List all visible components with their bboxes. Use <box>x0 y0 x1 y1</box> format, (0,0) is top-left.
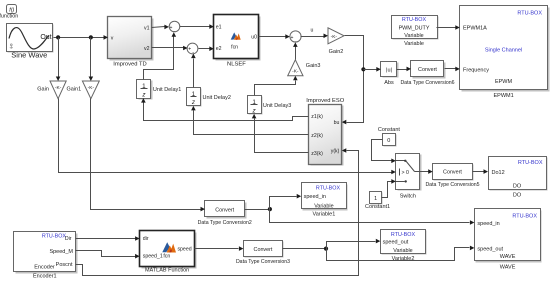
sum Sum1 <box>169 21 180 35</box>
wire Gain2 down to bu <box>342 36 364 125</box>
wire MATLAB Function speed to Data Type Conversion3 <box>195 246 244 251</box>
svg-text:dir: dir <box>143 236 149 242</box>
svg-text:Gain3: Gain3 <box>306 63 321 69</box>
block Unit Delay1 <box>137 80 182 100</box>
svg-text:Data Type Conversion2: Data Type Conversion2 <box>198 220 252 226</box>
function badge f() <box>0 5 18 20</box>
block Data Type Conversion3 <box>236 241 290 266</box>
block Variable2 <box>381 230 427 262</box>
wire Data Type Conversion3 to junction <box>283 248 327 250</box>
block Encoder1 <box>14 232 78 280</box>
svg-text:v2: v2 <box>144 46 150 52</box>
wire Gain3 to Sum3 minus <box>293 42 298 59</box>
svg-text:speed_in: speed_in <box>477 221 499 227</box>
svg-text:Data Type Conversion3: Data Type Conversion3 <box>236 259 290 265</box>
svg-text:Variable: Variable <box>404 33 423 39</box>
sum Sum2 <box>187 43 198 56</box>
wire Data Type Conversion2 to junction <box>245 209 270 211</box>
svg-text:y(k): y(k) <box>331 149 340 155</box>
svg-text:Do12: Do12 <box>492 170 505 176</box>
svg-text:z1(k): z1(k) <box>311 114 323 120</box>
svg-text:RTU-BOX: RTU-BOX <box>391 232 416 238</box>
svg-text:DO: DO <box>513 193 522 199</box>
svg-text:e1: e1 <box>216 24 222 30</box>
svg-text:Convert: Convert <box>215 207 234 213</box>
wire Abs to Data Type Conversion6 <box>397 67 412 72</box>
svg-text:Poscnt: Poscnt <box>56 262 73 268</box>
svg-text:fcn: fcn <box>231 45 238 51</box>
svg-text:Variable: Variable <box>393 248 412 254</box>
svg-text:v: v <box>111 36 114 42</box>
wire junction to Variable2 speed_out <box>327 239 381 249</box>
svg-text:Unit Delay1: Unit Delay1 <box>153 87 181 93</box>
block Data Type Conversion2 <box>198 201 252 227</box>
svg-text:z3(k): z3(k) <box>311 151 323 157</box>
junction speed_in <box>268 207 272 211</box>
gain Gain <box>37 81 66 99</box>
svg-text:Speed_M: Speed_M <box>49 249 73 255</box>
block WAVE <box>475 209 542 271</box>
gain Gain1 <box>67 81 100 99</box>
svg-text:Variable: Variable <box>404 41 424 47</box>
svg-text:Gain2: Gain2 <box>329 49 344 55</box>
svg-text:1: 1 <box>374 196 377 202</box>
wire junction to WAVE speed_in <box>270 210 475 225</box>
sum Sum3 <box>290 31 301 45</box>
block Unit Delay3 <box>248 96 292 115</box>
wire Sum1 to NLSEF e1 <box>180 24 214 29</box>
svg-text:EPWM: EPWM <box>495 79 513 85</box>
svg-text:-K-: -K- <box>88 85 95 91</box>
wire junction to Abs <box>364 67 381 72</box>
svg-text:Convert: Convert <box>443 170 462 176</box>
svg-text:RTU-BOX: RTU-BOX <box>402 17 427 23</box>
junction Gain2 branch to Abs <box>361 67 365 71</box>
svg-text:RTU-BOX: RTU-BOX <box>518 160 543 166</box>
svg-text:Sine Wave: Sine Wave <box>11 51 47 60</box>
svg-text:bu: bu <box>334 120 340 126</box>
wire Switch to Data Type Conversion5 <box>420 169 433 174</box>
junction on sine wire at Gain1 <box>89 35 93 39</box>
svg-text:-K-: -K- <box>331 34 338 40</box>
wire TD v1 to Sum1 <box>152 25 169 30</box>
wire Sum2 to NLSEF e2 <box>199 46 214 51</box>
svg-text:speed_1: speed_1 <box>143 254 163 260</box>
svg-text:v1: v1 <box>144 26 150 32</box>
svg-text:Abs: Abs <box>384 80 394 86</box>
svg-text:Encoder1: Encoder1 <box>33 274 57 280</box>
svg-text:RTU-BOX: RTU-BOX <box>316 185 341 191</box>
wire Data Type Conversion5 to DO Do12 <box>473 169 489 174</box>
gain Gain3 (pointing up) <box>288 60 321 76</box>
svg-text:Single Channel: Single Channel <box>485 47 522 53</box>
svg-text:Constant: Constant <box>378 127 400 133</box>
svg-text:RTU-BOX: RTU-BOX <box>512 213 537 219</box>
svg-text:Encoder: Encoder <box>34 264 55 270</box>
wire Encoder Poscnt to ESO y(k) <box>76 148 359 275</box>
svg-text:> 0: > 0 <box>402 170 409 176</box>
block Data Type Conversion5 <box>425 164 479 189</box>
wire Unit Delay2 to Sum2 minus <box>191 54 196 88</box>
svg-text:WAVE: WAVE <box>500 254 516 260</box>
block Data Type Conversion6 <box>400 61 454 87</box>
wire Sine Wave to Improved TD <box>54 35 109 40</box>
wire ESO z2(k) to Unit Delay2 <box>191 106 308 135</box>
svg-text:Data Type Conversion5: Data Type Conversion5 <box>425 182 479 188</box>
svg-text:fcn: fcn <box>163 254 170 260</box>
svg-text:speed_in: speed_in <box>304 194 326 200</box>
svg-text:speed_out: speed_out <box>383 239 409 245</box>
svg-text:MATLAB Function: MATLAB Function <box>145 267 189 273</box>
svg-text:Frequency: Frequency <box>463 67 489 73</box>
wire Constant1 to Switch bottom <box>382 179 396 197</box>
wire TD v2 to Sum2 <box>152 46 188 51</box>
wire Data Type Conversion6 to EPWM Frequency <box>445 67 460 72</box>
matlab-function block NLSEF <box>214 15 261 68</box>
svg-text:Variable: Variable <box>314 203 333 209</box>
svg-text:speed_out: speed_out <box>477 246 503 252</box>
svg-text:speed: speed <box>177 246 191 252</box>
svg-text:Switch: Switch <box>400 193 416 199</box>
svg-text:Unit Delay3: Unit Delay3 <box>263 103 291 109</box>
svg-text:u0: u0 <box>251 35 257 41</box>
svg-text:NLSEF: NLSEF <box>227 61 246 67</box>
svg-text:DO: DO <box>513 183 522 189</box>
svg-text:Unit Delay2: Unit Delay2 <box>203 95 231 101</box>
svg-text:0: 0 <box>387 138 390 144</box>
wire Unit Delay1 to Sum1 minus <box>144 32 177 79</box>
svg-text:Improved TD: Improved TD <box>113 61 146 67</box>
svg-text:EPWM1A: EPWM1A <box>463 26 487 32</box>
block Switch <box>396 154 422 200</box>
svg-text:+: + <box>169 25 172 31</box>
gain Gain2 <box>328 28 344 55</box>
block Variable (PWM_DUTY) <box>392 16 439 48</box>
block Constant1 <box>365 192 390 210</box>
svg-text:function: function <box>0 14 18 20</box>
svg-text:PWM_DUTY: PWM_DUTY <box>399 25 430 31</box>
svg-text:|u|: |u| <box>386 68 392 74</box>
svg-text:RTU-BOX: RTU-BOX <box>517 11 542 17</box>
svg-text:WAVE: WAVE <box>500 265 516 271</box>
block DO <box>489 157 548 199</box>
block Constant <box>378 127 400 147</box>
wire Unit Delay3 to Gain3 <box>255 76 298 96</box>
wire Encoder Speed_M to MATLAB Function speed_1 <box>76 251 140 259</box>
block Variable1 <box>302 183 348 218</box>
wire Encoder Dir to MATLAB Function dir <box>76 236 140 241</box>
block Sine Wave <box>7 24 54 60</box>
wire ESO z1(k) to Unit Delay1 <box>141 98 308 120</box>
wire junction to WAVE speed_out <box>327 246 475 261</box>
wire Constant 0 to Switch top <box>372 140 396 164</box>
svg-text:Out: Out <box>40 34 51 41</box>
svg-text:+: + <box>188 46 191 52</box>
wire Gain1 to Data Type Conversion2 <box>91 99 206 212</box>
svg-text:u: u <box>311 28 314 34</box>
block Unit Delay2 <box>187 88 231 107</box>
wire Gain to Switch control <box>59 99 396 175</box>
wire junction to Variable1 speed_in <box>270 194 302 210</box>
svg-text:Constant1: Constant1 <box>365 204 390 210</box>
wire NLSEF u0 to Sum3 <box>259 34 290 39</box>
subsystem Improved ESO <box>306 98 345 166</box>
svg-text:Variable1: Variable1 <box>312 211 335 217</box>
block EPWM1 <box>460 6 550 99</box>
svg-text:f(): f() <box>9 7 14 13</box>
svg-text:Gain1: Gain1 <box>67 87 82 93</box>
svg-text:EPWM1: EPWM1 <box>494 93 514 99</box>
svg-text:Data Type Conversion6: Data Type Conversion6 <box>400 80 454 86</box>
wire junction down to Gain <box>56 38 61 82</box>
subsystem Improved TD <box>108 17 154 68</box>
svg-text:Convert: Convert <box>254 247 273 253</box>
junction on sine wire at Gain <box>56 35 60 39</box>
svg-text:Convert: Convert <box>418 67 437 73</box>
block Abs <box>381 62 399 87</box>
wire PWM_DUTY Variable to EPWM1A <box>437 25 460 30</box>
wire ESO z3(k) to Unit Delay3 <box>252 114 309 153</box>
svg-text:RTU-BOX: RTU-BOX <box>42 234 67 240</box>
svg-text:-K-: -K- <box>55 85 62 91</box>
svg-text:e2: e2 <box>216 46 222 52</box>
wire Sum3 to Gain2, label u <box>301 28 329 39</box>
svg-text:Dir: Dir <box>65 236 72 242</box>
svg-text:+: + <box>291 35 294 41</box>
matlab-function block MATLAB Function <box>140 231 197 274</box>
svg-text:Gain: Gain <box>37 87 49 93</box>
svg-text:z2(k): z2(k) <box>311 133 323 139</box>
svg-text:Improved ESO: Improved ESO <box>306 98 345 104</box>
wire junction down to Gain1 <box>89 38 94 82</box>
svg-text:-K-: -K- <box>292 69 299 75</box>
junction speed <box>324 247 328 251</box>
